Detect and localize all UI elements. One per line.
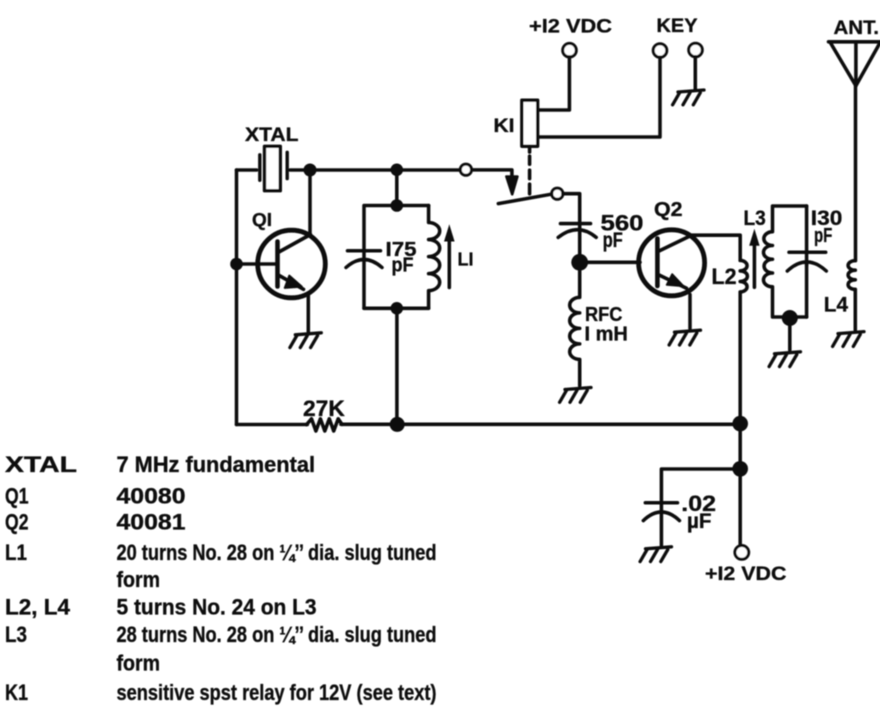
svg-text:L1: L1 bbox=[5, 540, 27, 565]
terminal KEY left bbox=[653, 44, 667, 58]
svg-text:L3: L3 bbox=[5, 622, 27, 647]
capacitor 560pF plate bbox=[561, 222, 591, 226]
wire 130pF top bbox=[805, 206, 809, 265]
svg-text:sensitive spst relay for 12V (: sensitive spst relay for 12V (see text) bbox=[117, 680, 437, 705]
wire Q1 collector bbox=[308, 170, 312, 236]
capacitor 175pF curved plate bbox=[346, 260, 382, 268]
svg-text:XTAL: XTAL bbox=[245, 125, 299, 146]
terminal KEY right bbox=[689, 43, 703, 57]
wire L4 to ground bbox=[854, 289, 858, 330]
svg-text:I mH: I mH bbox=[585, 323, 628, 346]
junction dot crystal/collector bbox=[304, 164, 317, 177]
svg-text:L4: L4 bbox=[824, 293, 848, 317]
inductor L4 bbox=[848, 261, 855, 290]
wire L2 to +12V feed bbox=[738, 292, 742, 545]
svg-text:40081: 40081 bbox=[117, 510, 186, 535]
choke RFC 1mH bbox=[570, 262, 580, 386]
terminal +12 VDC bottom bbox=[735, 546, 749, 560]
junction dot bias rail bbox=[732, 416, 748, 432]
resistor 27K bbox=[307, 419, 343, 431]
wire base node to Q2 bbox=[580, 261, 640, 265]
transistor Q1 emitter lead bbox=[278, 275, 303, 289]
ground Q2 emitter bbox=[669, 330, 700, 345]
transistor Q2 emitter arrow bbox=[667, 274, 684, 286]
wire bias rail left bbox=[237, 423, 308, 427]
svg-text:L3: L3 bbox=[744, 207, 766, 230]
inductor L1 arrow stem bbox=[448, 241, 452, 288]
svg-text:Q1: Q1 bbox=[5, 484, 29, 509]
ground L3 bbox=[769, 352, 800, 367]
svg-text:+I2 VDC: +I2 VDC bbox=[705, 563, 786, 585]
transistor Q2 emitter lead bbox=[658, 275, 687, 289]
junction dot rail/tank bbox=[391, 164, 404, 177]
switch contact left bbox=[460, 164, 471, 175]
wire rail to tank top bbox=[395, 170, 399, 206]
junction dot tank/bias rail bbox=[390, 417, 405, 432]
svg-text:LI: LI bbox=[458, 250, 474, 270]
junction dot tank bottom bbox=[391, 302, 404, 315]
wire L3 to ground bbox=[788, 318, 792, 350]
ground .02uF bbox=[640, 547, 671, 562]
wire Q1 emitter to ground bbox=[307, 294, 311, 334]
wire Q1 base bbox=[237, 262, 276, 266]
junction dot bypass bbox=[732, 461, 748, 477]
junction dot tank top bbox=[391, 199, 404, 212]
crystal XTAL plates bbox=[260, 152, 287, 180]
capacitor 130pF curved plate bbox=[787, 262, 826, 271]
transistor Q2 base bar bbox=[655, 239, 660, 287]
wire bias rail right bbox=[341, 423, 740, 427]
wire switch to 560pF bbox=[563, 194, 580, 233]
capacitor 560pF curved plate bbox=[558, 230, 596, 238]
capacitor 130pF plate bbox=[789, 251, 826, 255]
inductor L1 arrow head bbox=[444, 224, 455, 241]
antenna symbol bbox=[829, 42, 880, 86]
svg-text:KI: KI bbox=[494, 116, 515, 137]
svg-text:pF: pF bbox=[392, 255, 414, 277]
svg-text:form: form bbox=[117, 567, 161, 592]
transistor Q2 collector lead bbox=[658, 236, 691, 252]
transistor Q1 body bbox=[258, 230, 326, 298]
switch contact right bbox=[552, 188, 563, 199]
relay K1 dashed actuation link bbox=[528, 146, 532, 194]
inductor L3 arrow stem bbox=[753, 246, 757, 288]
wire tank top and left bbox=[364, 206, 429, 309]
svg-text:20 turns No. 28 on ¼’’ dia. sl: 20 turns No. 28 on ¼’’ dia. slug tuned bbox=[117, 540, 437, 565]
wire +12VDC to relay coil bbox=[538, 57, 570, 110]
terminal +12 VDC top bbox=[563, 43, 577, 57]
svg-text:40080: 40080 bbox=[117, 484, 186, 509]
svg-text:5 turns No. 24 on L3: 5 turns No. 24 on L3 bbox=[117, 595, 317, 620]
transistor Q2 body bbox=[639, 230, 705, 296]
svg-text:QI: QI bbox=[252, 210, 272, 230]
svg-text:+I2 VDC: +I2 VDC bbox=[529, 16, 612, 38]
wire KEY right to ground bbox=[694, 57, 698, 90]
transistor Q1 collector lead bbox=[278, 235, 311, 253]
svg-text:pF: pF bbox=[603, 229, 623, 252]
junction dot L3 bottom bbox=[782, 310, 798, 326]
wire 130pF to bottom bbox=[805, 264, 809, 317]
wire .02uF to ground bbox=[660, 514, 664, 546]
wire Q2 collector to L2 bbox=[689, 235, 741, 260]
svg-text:K1: K1 bbox=[5, 680, 28, 705]
wire bypass branch bbox=[661, 469, 740, 513]
relay coil K1 bbox=[522, 100, 538, 146]
capacitor .02uF curved plate bbox=[643, 512, 679, 521]
wire oscillator left rail bbox=[235, 170, 239, 425]
inductor L3 and frame bbox=[763, 206, 806, 317]
svg-text:KEY: KEY bbox=[657, 15, 698, 37]
wire rail to crystal bbox=[237, 168, 257, 172]
wire 560pF to base node bbox=[578, 233, 582, 263]
ground L4 bbox=[833, 332, 864, 347]
svg-text:form: form bbox=[117, 651, 161, 676]
wire switch contact to actuation arrow bbox=[472, 170, 512, 177]
svg-text:pF: pF bbox=[814, 225, 832, 247]
svg-text:ANT.: ANT. bbox=[834, 17, 880, 39]
wire capacitor to tank bottom bbox=[364, 307, 429, 311]
inductor L3 arrow head bbox=[749, 229, 759, 246]
wire crystal to switch bbox=[290, 168, 460, 172]
capacitor 175pF plate bbox=[348, 249, 381, 253]
junction dot Q1 base bbox=[230, 258, 243, 271]
inductor L2 bbox=[740, 260, 747, 292]
svg-text:27K: 27K bbox=[303, 396, 345, 421]
ground RFC bbox=[560, 388, 591, 403]
svg-text:L2: L2 bbox=[712, 264, 737, 289]
wire KEY to relay coil bbox=[538, 57, 660, 137]
svg-text:XTAL: XTAL bbox=[5, 452, 77, 477]
svg-text:7 MHz fundamental: 7 MHz fundamental bbox=[117, 452, 316, 477]
transistor Q1 base bar bbox=[275, 242, 280, 287]
wire tank bottom to bias rail bbox=[395, 308, 399, 424]
ground Q1 emitter bbox=[290, 333, 321, 348]
svg-text:L2, L4: L2, L4 bbox=[5, 595, 71, 620]
transistor Q1 emitter arrow bbox=[285, 276, 302, 288]
crystal XTAL body bbox=[265, 146, 281, 190]
svg-text:28 turns No. 28 on ¼’’ dia. sl: 28 turns No. 28 on ¼’’ dia. slug tuned bbox=[117, 622, 437, 647]
capacitor .02uF plate bbox=[645, 501, 677, 505]
svg-text:Q2: Q2 bbox=[5, 510, 29, 535]
wire Q2 emitter to ground bbox=[688, 295, 692, 329]
svg-text:µF: µF bbox=[687, 510, 712, 533]
ground KEY bbox=[673, 90, 704, 105]
switch arm bbox=[498, 194, 551, 203]
svg-text:Q2: Q2 bbox=[654, 198, 683, 221]
inductor L1 bbox=[429, 206, 440, 309]
wire antenna to L4 bbox=[854, 86, 858, 261]
switch arrow head bbox=[506, 177, 517, 195]
junction dot Q2 base node bbox=[571, 254, 588, 271]
